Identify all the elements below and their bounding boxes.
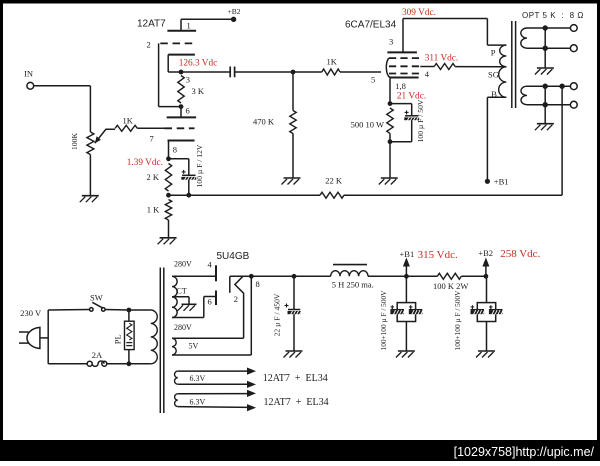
svg-text:OPT 5 K : 8 Ω: OPT 5 K : 8 Ω: [522, 11, 584, 20]
svg-text:P: P: [491, 48, 496, 58]
svg-text:SW: SW: [90, 293, 103, 303]
svg-text:CT: CT: [177, 287, 187, 296]
svg-text:100 µ F / 50V: 100 µ F / 50V: [416, 99, 425, 142]
svg-text:100 µ F / 12V: 100 µ F / 12V: [195, 144, 204, 187]
svg-text:6CA7/EL34: 6CA7/EL34: [345, 20, 397, 31]
svg-text:280V: 280V: [174, 323, 192, 332]
svg-text:2A: 2A: [92, 350, 103, 360]
svg-text:309 Vdc.: 309 Vdc.: [402, 8, 436, 18]
svg-text:230 V: 230 V: [20, 308, 42, 318]
svg-text:2 K: 2 K: [147, 172, 160, 182]
svg-text:1: 1: [187, 21, 191, 31]
svg-text:+B2: +B2: [228, 7, 241, 16]
svg-text:100K: 100K: [70, 132, 79, 150]
svg-text:12AT7 + EL34: 12AT7 + EL34: [263, 373, 328, 384]
svg-text:8: 8: [256, 279, 260, 289]
svg-text:+B2: +B2: [478, 248, 493, 258]
svg-text:+B1: +B1: [400, 249, 415, 259]
svg-text:1.39 Vdc.: 1.39 Vdc.: [127, 158, 163, 168]
svg-text:5U4GB: 5U4GB: [217, 251, 250, 262]
svg-text:1K: 1K: [123, 116, 134, 126]
svg-text:126.3 Vdc: 126.3 Vdc: [179, 58, 218, 68]
svg-text:6: 6: [186, 106, 190, 116]
svg-text:280V: 280V: [174, 260, 192, 269]
svg-text:1 K: 1 K: [147, 205, 160, 215]
svg-text:[1029x758]http://upic.me/: [1029x758]http://upic.me/: [454, 445, 595, 459]
svg-text:1,8: 1,8: [395, 81, 406, 91]
svg-text:7: 7: [150, 134, 154, 144]
svg-text:5 H 250 ma.: 5 H 250 ma.: [332, 280, 374, 290]
svg-text:12AT7 + EL34: 12AT7 + EL34: [264, 397, 329, 408]
svg-text:100 K 2W: 100 K 2W: [433, 281, 468, 291]
svg-text:3: 3: [389, 37, 393, 47]
svg-text:+B1: +B1: [494, 176, 509, 186]
svg-text:3: 3: [186, 75, 190, 85]
svg-text:22 µ F / 450V: 22 µ F / 450V: [272, 293, 281, 336]
svg-text:5: 5: [371, 75, 375, 85]
svg-text:1K: 1K: [327, 57, 338, 67]
svg-text:258 Vdc.: 258 Vdc.: [500, 248, 540, 260]
svg-text:3 K: 3 K: [192, 86, 205, 96]
svg-text:4: 4: [425, 69, 430, 79]
svg-text:2: 2: [234, 294, 238, 304]
svg-text:5V: 5V: [189, 342, 199, 351]
svg-text:8: 8: [173, 145, 177, 155]
svg-text:500 10 W: 500 10 W: [351, 120, 384, 130]
svg-text:311 Vdc.: 311 Vdc.: [425, 54, 459, 64]
svg-text:100+100 µ F / 500V: 100+100 µ F / 500V: [379, 290, 388, 351]
svg-text:2: 2: [147, 40, 151, 50]
svg-text:100+100 µ F / 500V: 100+100 µ F / 500V: [453, 290, 462, 351]
svg-text:12AT7: 12AT7: [137, 19, 166, 30]
svg-text:6.3V: 6.3V: [190, 374, 206, 383]
svg-text:315 Vdc.: 315 Vdc.: [418, 249, 458, 261]
svg-text:SG: SG: [488, 69, 499, 79]
svg-text:PL: PL: [112, 334, 122, 344]
svg-text:22 K: 22 K: [325, 176, 343, 186]
svg-text:IN: IN: [24, 69, 33, 79]
svg-text:6.3V: 6.3V: [190, 398, 206, 407]
svg-text:470 K: 470 K: [253, 117, 275, 127]
svg-text:6: 6: [208, 297, 212, 307]
